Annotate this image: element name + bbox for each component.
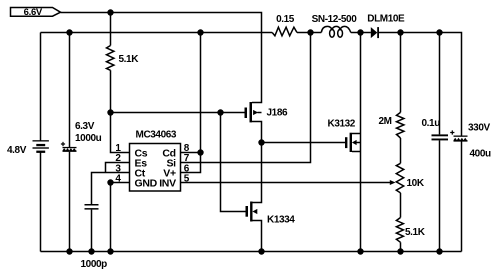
svg-text:330V: 330V [468,122,490,133]
svg-text:6.3V: 6.3V [75,121,95,132]
svg-text:10K: 10K [407,178,425,189]
svg-text:0.15: 0.15 [276,14,295,25]
svg-text:5.1K: 5.1K [405,227,426,238]
svg-text:6.6V: 6.6V [24,7,43,18]
svg-text:4.8V: 4.8V [7,145,27,156]
svg-text:SN-12-500: SN-12-500 [312,14,358,25]
svg-text:4: 4 [115,173,121,184]
svg-text:DLM10E: DLM10E [367,14,405,25]
svg-text:MC34063: MC34063 [136,130,177,141]
svg-text:1000p: 1000p [81,259,108,270]
svg-text:2M: 2M [379,116,392,127]
svg-text:1000u: 1000u [75,133,102,144]
svg-text:INV: INV [159,178,176,190]
svg-text:5: 5 [184,173,190,184]
svg-text:K1334: K1334 [267,215,295,226]
svg-text:400u: 400u [470,148,491,159]
svg-text:K3132: K3132 [328,118,356,129]
svg-text:J186: J186 [267,108,288,119]
svg-text:0.1u: 0.1u [422,118,441,129]
svg-text:5.1K: 5.1K [119,54,140,65]
svg-text:GND: GND [135,178,158,190]
